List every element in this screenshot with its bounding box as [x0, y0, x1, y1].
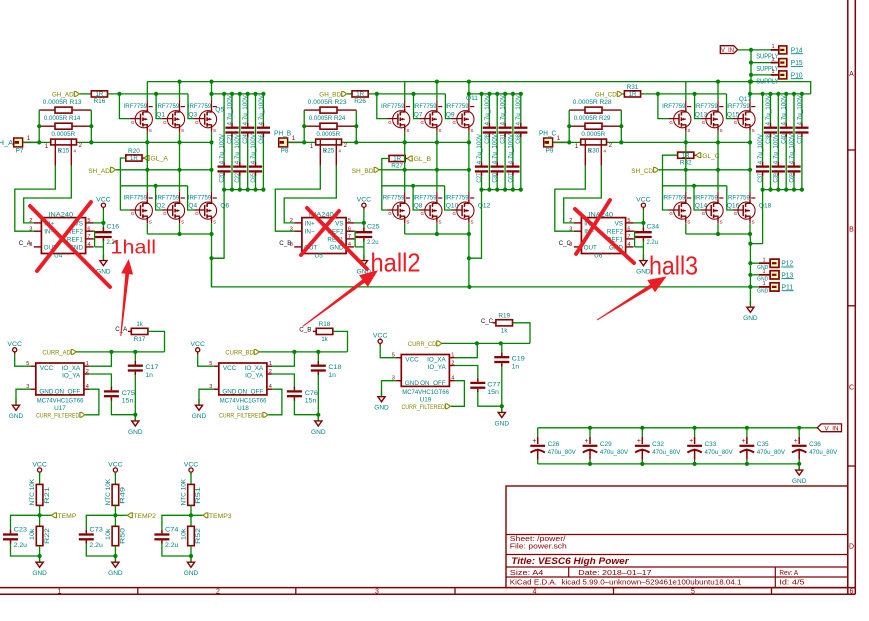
connector P11 GND — [750, 286, 759, 288]
junction dots SH bus C — [684, 168, 688, 172]
ground A ina — [102, 254, 104, 260]
svg-text:CURR_CD: CURR_CD — [408, 341, 436, 348]
svg-text:4.7u_100V: 4.7u_100V — [484, 94, 491, 125]
capacitor C75 15n — [104, 390, 119, 392]
svg-text:IRF7759: IRF7759 — [662, 195, 686, 202]
wire source bus C — [686, 233, 750, 235]
wire VCC to pin5 U19 — [380, 346, 396, 358]
svg-text:G: G — [452, 120, 456, 125]
svg-text:Date: 2018–01–17: Date: 2018–01–17 — [578, 570, 651, 577]
junction dots shunt B — [302, 124, 306, 128]
svg-text:G: G — [388, 211, 392, 216]
svg-text:SH_AD: SH_AD — [88, 168, 110, 175]
capacitor C35 470u_80V polarized — [746, 428, 748, 437]
svg-text:P9: P9 — [546, 148, 554, 155]
svg-text:SUPPLY: SUPPLY — [756, 78, 779, 85]
junction dot gate bus bottom B — [411, 184, 415, 188]
svg-text:S: S — [149, 220, 152, 225]
capacitor C32 470u_80V polarized — [641, 428, 643, 437]
svg-text:R27: R27 — [391, 163, 403, 170]
ground temp TEMP3 — [190, 556, 192, 562]
global label V_IN bulk — [817, 424, 841, 432]
svg-text:4.7u_100V: 4.7u_100V — [500, 94, 507, 125]
svg-text:1: 1 — [292, 135, 296, 142]
capacitor C22 4.7u_100V — [239, 94, 241, 162]
junction dots gate bus B — [375, 92, 379, 96]
svg-text:IRF7759: IRF7759 — [381, 195, 405, 202]
svg-text:C39: C39 — [773, 173, 780, 183]
svg-text:S: S — [181, 128, 184, 133]
svg-text:REF1: REF1 — [67, 237, 84, 244]
wire source bus to gnd B — [468, 234, 470, 287]
svg-text:G: G — [195, 211, 199, 216]
svg-text:IRF7759: IRF7759 — [156, 195, 180, 202]
junction dots gnd bus — [467, 285, 471, 289]
capacitor C69 4.7u_100V — [793, 94, 795, 162]
label GL_C — [696, 153, 701, 158]
svg-text:4.7u_100V: 4.7u_100V — [765, 94, 772, 125]
ground temp TEMP2 — [114, 556, 116, 562]
annotation X over U6 — [575, 209, 634, 263]
svg-text:1: 1 — [771, 69, 774, 75]
wire CURR_FILTERED to pin4 U18 — [268, 389, 282, 415]
wire shunt rail right A — [90, 110, 92, 142]
svg-text:R49: R49 — [120, 486, 127, 504]
wire top drain bus V+ — [147, 82, 810, 94]
wire CURR_FILTERED to pin4 U17 — [85, 389, 99, 415]
svg-text:Sheet: /power/: Sheet: /power/ — [510, 536, 566, 543]
svg-text:U4: U4 — [54, 253, 63, 260]
resistor R31 1R — [623, 93, 625, 95]
resistor R26 1R — [347, 93, 352, 95]
svg-text:C74: C74 — [165, 526, 179, 533]
connector P14 SUPPLY — [779, 46, 787, 54]
wire pin2 down through C77 U19 — [455, 366, 478, 379]
wire pin1 up U17 — [89, 352, 111, 366]
svg-text:C_B: C_B — [279, 240, 292, 247]
svg-text:470u_80V: 470u_80V — [600, 449, 629, 456]
svg-text:1: 1 — [269, 361, 272, 367]
annotation arrow hall2 — [302, 270, 378, 327]
svg-text:IO_XA: IO_XA — [62, 365, 81, 372]
capacitor C70 4.7u_100V — [801, 94, 803, 123]
svg-text:2.2u: 2.2u — [89, 542, 103, 549]
junction dot temp TEMP — [38, 513, 42, 517]
svg-text:PH_C: PH_C — [539, 129, 556, 138]
svg-text:3: 3 — [375, 588, 379, 595]
svg-text:1R: 1R — [130, 155, 138, 162]
junction dot gnd node U19 — [500, 404, 504, 408]
svg-text:GND: GND — [792, 478, 807, 485]
svg-text:KiCad E.D.A. kicad 5.99.0–unk: KiCad E.D.A. kicad 5.99.0–unknown–529461… — [510, 580, 742, 587]
svg-text:C77: C77 — [487, 381, 500, 388]
svg-text:1k: 1k — [321, 336, 328, 343]
wire bulk cap bottom rail — [538, 463, 800, 465]
junction dot gnd temp TEMP2 — [113, 554, 117, 558]
wire pin3 to gnd U19 — [382, 381, 397, 391]
svg-text:G: G — [452, 211, 456, 216]
svg-text:4: 4 — [348, 242, 351, 248]
svg-text:C68: C68 — [515, 134, 522, 144]
svg-text:G: G — [420, 120, 424, 125]
capacitor C74 2.2u — [162, 515, 191, 530]
svg-text:IRF7759: IRF7759 — [726, 103, 750, 110]
connector P8 PH_B — [279, 138, 288, 147]
ground bulk bank — [798, 464, 800, 470]
svg-text:V_IN: V_IN — [825, 426, 839, 433]
svg-text:10k: 10k — [181, 527, 188, 540]
svg-text:S: S — [406, 220, 409, 225]
svg-text:C37: C37 — [757, 173, 764, 183]
svg-text:4: 4 — [87, 242, 90, 248]
svg-text:C_C: C_C — [481, 318, 493, 325]
junction dot gate bus bottom C — [692, 184, 696, 188]
capacitor C39 4.7u_100V — [777, 94, 779, 162]
svg-text:GND: GND — [32, 570, 47, 577]
svg-text:Rev: A: Rev: A — [779, 570, 798, 577]
svg-text:6: 6 — [348, 226, 351, 232]
wire source bus to gnd C — [749, 234, 751, 244]
svg-text:U18: U18 — [237, 405, 249, 412]
svg-text:hall3: hall3 — [649, 253, 698, 281]
svg-text:2: 2 — [269, 369, 272, 375]
junction dots bank bottom B — [487, 188, 491, 192]
svg-text:IO_XA: IO_XA — [427, 356, 446, 363]
wire pin1 up U19 — [455, 343, 478, 357]
svg-text:IO_YA: IO_YA — [62, 373, 81, 380]
resistor R52 10k — [188, 526, 195, 545]
svg-text:2: 2 — [290, 218, 293, 224]
wire gate drops top A — [119, 94, 129, 119]
resistor R32 1R — [678, 152, 694, 158]
svg-text:ON_OFF: ON_OFF — [55, 389, 81, 396]
wire R18 to CURR wire — [333, 331, 348, 352]
svg-text:1n: 1n — [512, 363, 520, 370]
wire pin3 to gnd U18 — [199, 389, 214, 399]
wire drain verticals top A — [146, 82, 148, 101]
svg-text:C38: C38 — [765, 134, 772, 144]
wire sense A to IN- — [15, 166, 56, 231]
ground B ina — [363, 254, 365, 260]
svg-text:0.0005R R14: 0.0005R R14 — [44, 115, 81, 122]
svg-text:R16: R16 — [94, 98, 106, 105]
wire cap bank top rail A — [212, 93, 264, 95]
svg-text:1: 1 — [27, 135, 31, 142]
svg-text:G: G — [702, 211, 706, 216]
svg-text:4.7u_100V: 4.7u_100V — [515, 94, 522, 125]
svg-text:Q9: Q9 — [446, 111, 455, 118]
wire drain verticals bottom B — [404, 142, 406, 191]
svg-text:C76: C76 — [305, 390, 318, 397]
shunt sense pins B — [319, 145, 321, 166]
svg-text:hall2: hall2 — [371, 250, 421, 278]
svg-text:C69: C69 — [788, 173, 795, 183]
svg-text:6: 6 — [627, 226, 630, 232]
wire sense B to IN+ — [284, 166, 336, 223]
svg-text:P7: P7 — [16, 148, 24, 155]
svg-text:C_C: C_C — [559, 240, 571, 247]
resistor R22 10k — [36, 526, 43, 545]
junction dots gate bus A — [117, 92, 121, 96]
svg-text:R52: R52 — [195, 527, 202, 544]
svg-text:GND: GND — [374, 405, 389, 412]
svg-text:V_IN: V_IN — [721, 47, 734, 54]
svg-text:2: 2 — [451, 361, 454, 367]
junction dots drain bus B — [435, 80, 439, 84]
resistor R21 NTC 10K — [39, 472, 41, 484]
wire source bus to gnd A — [211, 234, 213, 287]
svg-text:5: 5 — [87, 218, 90, 224]
svg-text:D: D — [849, 543, 854, 550]
svg-text:S: S — [213, 220, 216, 225]
border row ticks — [848, 149, 856, 151]
svg-text:C28: C28 — [484, 134, 491, 144]
svg-text:C73: C73 — [89, 526, 103, 533]
svg-text:+: + — [689, 438, 693, 445]
wire divider TEMP2 — [114, 505, 116, 526]
svg-text:6: 6 — [87, 226, 90, 232]
svg-text:4.7u_100V: 4.7u_100V — [242, 94, 249, 125]
svg-text:470u_80V: 470u_80V — [652, 449, 681, 456]
svg-text:2: 2 — [569, 218, 572, 224]
svg-text:G: G — [195, 120, 199, 125]
capacitor C24 4.7u_100V — [247, 94, 249, 123]
junction dots shunt C — [567, 124, 571, 128]
svg-text:2: 2 — [86, 369, 89, 375]
svg-text:IO_YA: IO_YA — [245, 373, 264, 380]
wire VCC to VS B — [363, 210, 365, 230]
capacitor C67 4.7u_100V — [512, 94, 514, 162]
svg-text:S: S — [752, 128, 755, 133]
label GL_B — [407, 156, 412, 161]
capacitor C20 4.7u_100V — [223, 94, 225, 162]
svg-text:+: + — [794, 438, 798, 445]
svg-text:GL_C: GL_C — [702, 153, 720, 160]
svg-text:C26: C26 — [548, 441, 560, 448]
svg-text:4: 4 — [627, 242, 630, 248]
svg-text:Id: 4/5: Id: 4/5 — [779, 580, 804, 587]
IC U19 MC74VHC1GT66 — [401, 355, 449, 387]
svg-text:S: S — [213, 128, 216, 133]
svg-text:S: S — [406, 128, 409, 133]
svg-text:3: 3 — [569, 226, 572, 232]
wire gate bus top C — [641, 93, 727, 95]
svg-text:C34: C34 — [647, 224, 660, 231]
svg-text:IRF7759: IRF7759 — [188, 103, 212, 110]
ground temp TEMP — [39, 556, 41, 562]
svg-text:GND: GND — [192, 413, 207, 420]
capacitor C29 470u_80V polarized — [589, 428, 591, 437]
wire CURR_AD bus — [76, 351, 164, 353]
svg-text:1R: 1R — [629, 91, 637, 98]
svg-text:IRF7759: IRF7759 — [662, 103, 686, 110]
svg-text:ON_OFF: ON_OFF — [420, 380, 446, 387]
wire VCC to pin5 U17 — [15, 354, 31, 366]
svg-text:IN+: IN+ — [305, 220, 315, 227]
svg-text:R22: R22 — [44, 527, 51, 544]
svg-text:+: + — [585, 438, 589, 445]
svg-text:Q1: Q1 — [156, 111, 165, 118]
svg-text:Q8: Q8 — [414, 203, 423, 210]
capacitor C23 2.2u — [11, 515, 40, 530]
svg-text:IRF7759: IRF7759 — [381, 103, 405, 110]
svg-text:Q4: Q4 — [188, 203, 197, 210]
junction dot gnd node U17 — [133, 413, 137, 417]
svg-text:VCC: VCC — [223, 365, 237, 372]
capacitor C68 4.7u_100V — [520, 94, 522, 123]
junction dots drain bus C — [716, 80, 720, 84]
svg-text:SUPPLY: SUPPLY — [756, 53, 779, 60]
svg-text:C36: C36 — [809, 441, 821, 448]
svg-text:IN−: IN− — [305, 229, 315, 236]
svg-text:2.2u: 2.2u — [165, 542, 179, 549]
wire R19 to CURR wire — [513, 323, 531, 344]
svg-text:4.7u_100V: 4.7u_100V — [258, 94, 265, 125]
capacitor C21 4.7u_100V — [231, 94, 233, 123]
svg-text:GH_BD: GH_BD — [319, 91, 341, 98]
svg-text:4.7u_100V: 4.7u_100V — [757, 133, 764, 164]
wire shunt rail right B — [355, 110, 357, 142]
svg-text:15n: 15n — [487, 389, 499, 396]
svg-text:5: 5 — [691, 588, 695, 595]
wire shunt rail left C — [568, 110, 570, 142]
wire CURR_CD bus — [442, 342, 530, 344]
svg-text:C17: C17 — [145, 364, 158, 371]
svg-text:0.0005R: 0.0005R — [581, 131, 605, 138]
ground right column — [749, 301, 751, 307]
svg-text:C70: C70 — [796, 134, 803, 144]
svg-text:SH_CD: SH_CD — [631, 168, 653, 175]
connector P15 SUPPLY — [779, 59, 787, 67]
wire REF pins A — [94, 231, 95, 247]
junction dots source bus A — [177, 232, 181, 236]
junction dots phase bus at FETs C — [684, 140, 688, 144]
title block frame — [506, 486, 848, 588]
wire R22 to gnd — [39, 546, 41, 556]
resistor R20 1R — [126, 155, 142, 161]
svg-text:G: G — [734, 120, 738, 125]
svg-text:G: G — [163, 211, 167, 216]
svg-text:1n: 1n — [328, 372, 336, 379]
svg-text:CURR_FILTERED: CURR_FILTERED — [402, 404, 445, 411]
capacitor C19 1n — [501, 343, 503, 352]
junction dots bank bottom A — [230, 188, 234, 192]
junction dots bank bottom C — [768, 188, 772, 192]
svg-text:1: 1 — [771, 57, 774, 63]
svg-text:IO_YA: IO_YA — [428, 364, 447, 371]
svg-text:A: A — [849, 71, 854, 78]
svg-text:1k: 1k — [501, 328, 508, 335]
wire sense C to IN- — [555, 166, 586, 231]
junction dot gnd temp TEMP3 — [189, 554, 193, 558]
svg-text:C24: C24 — [242, 134, 249, 144]
svg-text:G: G — [163, 120, 167, 125]
annotation X over U5 — [307, 208, 367, 269]
capacitor C30 4.7u_100V — [496, 94, 498, 162]
svg-text:0.0005R R29: 0.0005R R29 — [574, 115, 611, 122]
label TEMP2 — [115, 514, 127, 516]
svg-text:+: + — [637, 438, 641, 445]
wire pin3 to gnd U17 — [16, 389, 31, 399]
svg-text:Q3: Q3 — [188, 111, 197, 118]
svg-text:C30: C30 — [492, 173, 499, 183]
svg-text:ON_OFF: ON_OFF — [238, 389, 264, 396]
svg-text:S: S — [752, 220, 755, 225]
svg-text:10k: 10k — [29, 527, 36, 540]
svg-text:TEMP2: TEMP2 — [133, 513, 156, 520]
svg-text:R17: R17 — [134, 336, 146, 343]
wire cap bank top rail C — [750, 93, 811, 95]
ground output filter U17 — [134, 415, 136, 421]
svg-text:Q11: Q11 — [466, 95, 478, 102]
ground output filter U18 — [317, 415, 319, 421]
wire pin2 down through C75 U17 — [89, 374, 111, 387]
svg-text:SUPPLY: SUPPLY — [756, 66, 779, 73]
svg-text:2: 2 — [216, 588, 220, 595]
svg-text:G: G — [388, 120, 392, 125]
svg-text:MC74VHC1GT66: MC74VHC1GT66 — [220, 397, 267, 404]
svg-text:10k: 10k — [105, 527, 112, 540]
wire sense B to IN- — [275, 166, 320, 231]
svg-text:4.7u_100V: 4.7u_100V — [773, 133, 780, 164]
capacitor C26 470u_80V polarized — [537, 428, 539, 437]
shunt sense pins A — [54, 145, 56, 166]
svg-text:R26: R26 — [354, 98, 366, 105]
capacitor C33 470u_80V polarized — [694, 428, 696, 437]
ground pin3 U19 — [381, 391, 383, 397]
resistor R16 1R — [80, 93, 92, 95]
svg-text:R31: R31 — [627, 84, 639, 91]
capacitor C37 4.7u_100V — [762, 94, 764, 162]
svg-text:S: S — [720, 220, 723, 225]
svg-text:IRF7759: IRF7759 — [124, 103, 148, 110]
wire divider TEMP3 — [190, 505, 192, 526]
svg-text:MC74VHC1GT66: MC74VHC1GT66 — [402, 389, 449, 396]
svg-text:NTC 10K: NTC 10K — [105, 478, 112, 505]
svg-text:470u_80V: 470u_80V — [809, 449, 838, 456]
svg-text:4.7u_100V: 4.7u_100V — [781, 94, 788, 125]
wire source bus A — [147, 233, 211, 235]
svg-text:+: + — [532, 438, 536, 445]
svg-text:S: S — [439, 220, 442, 225]
svg-text:SH_BD: SH_BD — [352, 168, 374, 175]
ground pin3 U17 — [15, 399, 17, 405]
svg-text:C25: C25 — [367, 224, 380, 231]
wire SH_CD sense bus — [659, 169, 750, 171]
svg-text:S: S — [149, 128, 152, 133]
IC U17 MC74VHC1GT66 — [36, 363, 84, 395]
svg-text:C33: C33 — [705, 441, 717, 448]
wire drain verticals bottom C — [685, 142, 687, 191]
wire VCC to VS A — [102, 210, 104, 230]
wire drain verticals top C — [685, 82, 687, 101]
svg-text:IO_XA: IO_XA — [245, 365, 264, 372]
sheet border right — [847, 0, 849, 594]
svg-text:C31: C31 — [500, 134, 507, 144]
svg-text:GND: GND — [128, 429, 143, 436]
svg-text:4: 4 — [451, 376, 454, 382]
svg-text:1: 1 — [762, 269, 765, 275]
resistor R51 NTC 10K — [190, 472, 192, 484]
svg-text:C65: C65 — [250, 173, 257, 183]
svg-text:0.0005R R28: 0.0005R R28 — [573, 99, 612, 106]
svg-text:C: C — [849, 385, 854, 392]
capacitor C65 4.7u_100V — [255, 94, 257, 162]
wire R52 to gnd — [190, 546, 192, 556]
svg-text:OUT: OUT — [584, 244, 597, 251]
IC U18 MC74VHC1GT66 — [219, 363, 267, 395]
svg-text:4.7u_100V: 4.7u_100V — [219, 133, 226, 164]
